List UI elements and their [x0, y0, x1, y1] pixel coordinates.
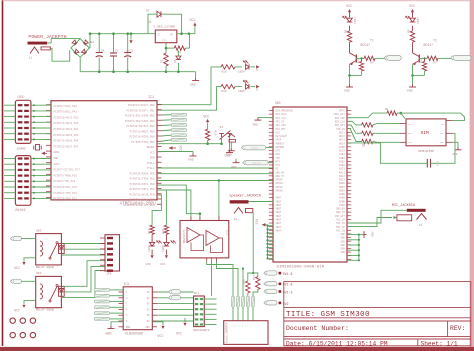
svg-text:GND: GND	[440, 141, 445, 144]
svg-text:VBAT: VBAT	[276, 219, 282, 222]
net flag SV1-3	[266, 289, 277, 293]
svg-text:NETLIGHT: NETLIGHT	[276, 135, 288, 138]
wire regulator output	[177, 33, 195, 35]
wire op-amp out B	[217, 262, 239, 297]
svg-text:GND: GND	[340, 251, 345, 254]
svg-text:PCINT26/SDA_PC1: PCINT26/SDA_PC1	[54, 197, 78, 201]
svg-text:DBG_RX: DBG_RX	[336, 208, 345, 211]
svg-text:PCINT31/OC0TV_PB0: PCINT31/OC0TV_PB0	[128, 103, 155, 107]
svg-text:GND: GND	[190, 83, 196, 87]
svg-text:ASAD: ASAD	[339, 204, 345, 207]
svg-text:PCINT1/OC0/AIN1_PB3: PCINT1/OC0/AIN1_PB3	[125, 119, 155, 123]
ground (T2)	[412, 75, 414, 84]
svg-text:MIC_JACKRCA: MIC_JACKRCA	[392, 204, 416, 208]
svg-text:R11: R11	[420, 58, 423, 63]
svg-text:R14: R14	[243, 279, 246, 284]
svg-text:HDC1: HDC1	[339, 131, 345, 134]
ground (SIM)	[453, 141, 459, 143]
svg-text:Rjack_SPKRPTH: Rjack_SPKRPTH	[225, 322, 229, 343]
wire IC1 to LED5	[157, 87, 221, 111]
net flag K2	[171, 295, 181, 299]
svg-text:VRTC: VRTC	[339, 110, 345, 113]
svg-text:HDC4: HDC4	[339, 142, 345, 145]
frame top border	[3, 0, 472, 2]
svg-text:U$1: U$1	[275, 101, 281, 105]
svg-text:RTS: RTS	[276, 160, 281, 163]
svg-text:US5: US5	[18, 96, 24, 100]
connector JP5	[105, 235, 120, 271]
svg-text:VCC: VCC	[254, 219, 258, 225]
mic jack J4 angle	[417, 214, 427, 220]
svg-text:SIM_VDD: SIM_VDD	[335, 117, 346, 120]
svg-text:SV1-8: SV1-8	[283, 283, 293, 287]
power jack J1 body	[28, 42, 48, 45]
svg-text:VCC: VCC	[176, 332, 182, 336]
svg-text:SIM_IO: SIM_IO	[336, 128, 345, 131]
svg-text:JP5: JP5	[106, 272, 112, 275]
svg-text:PT/SCK/T0S0_PB7: PT/SCK/T0S0_PB7	[131, 140, 155, 144]
svg-text:PCINT14/MISO_PB6: PCINT14/MISO_PB6	[130, 135, 155, 139]
svg-text:VBAT: VBAT	[276, 197, 282, 200]
svg-text:R13: R13	[253, 275, 256, 280]
svg-text:PCINT24/RXD0_PD0: PCINT24/RXD0_PD0	[130, 171, 155, 175]
regulator U1 box	[155, 30, 177, 43]
wire net RXD (IC1-U1)	[157, 167, 273, 169]
wire base (T2)	[419, 57, 427, 59]
svg-text:GND: GND	[150, 157, 155, 160]
svg-text:KBC3: KBC3	[339, 179, 345, 182]
svg-text:LED4: LED4	[238, 70, 245, 73]
LED LED5	[235, 86, 242, 88]
svg-text:PCINT12/ADC4_PA4: PCINT12/ADC4_PA4	[54, 127, 79, 131]
svg-text:SIM_RST: SIM_RST	[335, 124, 346, 127]
svg-text:ASAD: ASAD	[339, 197, 345, 200]
svg-text:D7: D7	[146, 10, 150, 13]
wire emitter (T2)	[412, 64, 414, 75]
net flag K1	[171, 290, 181, 294]
svg-text:GND: GND	[340, 240, 345, 243]
op-amp A	[187, 228, 200, 243]
connector M10X2	[15, 156, 31, 206]
svg-text:PCINT26/INT0_PD2: PCINT26/INT0_PD2	[130, 182, 155, 186]
svg-text:LED3: LED3	[353, 18, 356, 25]
svg-text:U$3: U$3	[36, 228, 42, 232]
svg-text:VCC: VCC	[14, 266, 20, 270]
LED LED4	[235, 66, 242, 68]
svg-text:B1: B1	[91, 41, 95, 44]
svg-text:PCINT13/MOSI_PB5: PCINT13/MOSI_PB5	[130, 129, 155, 133]
supply VCC (IC3)	[152, 322, 163, 325]
svg-text:IC3: IC3	[123, 282, 129, 286]
svg-text:MAX4077A: MAX4077A	[183, 229, 186, 243]
capacitor C13	[426, 159, 428, 168]
LED (T1 collector)	[347, 18, 353, 22]
svg-text:BC547: BC547	[361, 43, 371, 47]
svg-text:A2B1: A2B1	[339, 153, 345, 156]
wire VBAT rail	[267, 225, 269, 258]
svg-text:DBG_RX: DBG_RX	[276, 171, 285, 174]
IC1 pin stubs	[46, 104, 51, 106]
svg-text:SPK2P: SPK2P	[276, 186, 284, 189]
svg-text:R11: R11	[357, 58, 360, 63]
net VCC branch on rail	[129, 40, 132, 43]
svg-text:VCC: VCC	[160, 262, 166, 266]
wire R5 to SIM	[373, 123, 400, 125]
svg-text:PWRKEY: PWRKEY	[276, 142, 285, 145]
svg-text:DTR: DTR	[276, 150, 281, 153]
power jack J1 pins	[30, 47, 39, 54]
svg-text:RESET: RESET	[147, 146, 155, 149]
svg-text:R15: R15	[214, 131, 217, 136]
diode (flyback, relay K1)	[59, 244, 65, 254]
supply VCC (LED5)	[256, 85, 259, 88]
svg-text:J4: J4	[419, 224, 423, 227]
wire spk col 3	[242, 269, 244, 297]
svg-text:PWRKEY: PWRKEY	[251, 147, 259, 150]
wire JP1 up	[211, 258, 213, 296]
wire to op-amp in A	[157, 185, 200, 220]
svg-text:XTAL2: XTAL2	[147, 162, 155, 165]
svg-text:VCC: VCC	[179, 146, 183, 152]
net flag (T2)	[453, 55, 471, 60]
svg-text:PCINT10/ADC2_PA2: PCINT10/ADC2_PA2	[54, 115, 79, 119]
svg-text:CTS: CTS	[276, 164, 281, 167]
svg-text:PCINT27/INT1_PD3: PCINT27/INT1_PD3	[130, 187, 155, 191]
svg-text:IC2: IC2	[226, 230, 229, 235]
resistor R14	[246, 281, 250, 293]
svg-text:Date: 6/15/2011 12:05:14 PM: Date: 6/15/2011 12:05:14 PM	[286, 340, 388, 347]
svg-text:PCINT29/OC1A_PD5: PCINT29/OC1A_PD5	[130, 198, 155, 202]
svg-text:GND: GND	[253, 124, 259, 127]
wire U1 GND rail	[358, 235, 360, 261]
wires M10X2 to IC1	[4, 158, 15, 160]
IC3 pin stubs	[119, 291, 124, 293]
svg-text:R19: R19	[222, 90, 227, 93]
svg-text:RELAY-2Q8Q: RELAY-2Q8Q	[36, 266, 54, 269]
svg-text:VBAT: VBAT	[276, 229, 282, 232]
wire speaker to U1	[249, 201, 274, 203]
svg-text:PCINT15/ADC7_PA7: PCINT15/ADC7_PA7	[54, 144, 79, 148]
svg-text:GND: GND	[54, 157, 59, 160]
svg-text:RELAY-2Q8Q: RELAY-2Q8Q	[36, 309, 54, 312]
SIM connector box	[406, 119, 446, 146]
wire speaker to R14R13	[252, 213, 254, 273]
LED (T2 collector)	[410, 18, 416, 22]
svg-text:AGND: AGND	[339, 200, 345, 203]
net flag SV2	[266, 301, 277, 305]
svg-text:T2: T2	[433, 39, 437, 43]
wire SIM_VDD	[347, 113, 387, 118]
svg-text:A2B2: A2B2	[339, 157, 345, 160]
svg-text:SIM3001000-040N-01R: SIM3001000-040N-01R	[277, 266, 325, 270]
resistor R5	[362, 123, 373, 127]
svg-text:ASB1: ASB1	[339, 160, 345, 163]
svg-text:CLA: CLA	[408, 123, 413, 126]
svg-text:VCC: VCC	[256, 85, 259, 90]
wires relay K1 to JP5	[64, 243, 105, 245]
svg-text:SPK2N: SPK2N	[276, 189, 284, 192]
svg-text:SIM: SIM	[421, 130, 430, 136]
svg-text:VBAT: VBAT	[276, 215, 282, 218]
svg-text:VCC: VCC	[146, 262, 152, 266]
IC2 pin stubs	[190, 217, 192, 221]
svg-text:PCINT30/CLK0T/_PB1: PCINT30/CLK0T/_PB1	[126, 108, 154, 112]
svg-text:SV1-6: SV1-6	[283, 272, 293, 276]
svg-text:PCINT5/TMS0_PC5: PCINT5/TMS0_PC5	[54, 173, 78, 177]
svg-text:VBAT: VBAT	[276, 226, 282, 229]
ground (regulator)	[195, 72, 197, 78]
LED LED9	[164, 242, 169, 246]
resistor pull (T1)	[361, 58, 363, 61]
capacitor C1	[113, 34, 115, 53]
svg-text:VCC: VCC	[158, 334, 164, 338]
svg-text:VCC: VCC	[190, 19, 196, 23]
frame left border	[2, 0, 4, 346]
svg-text:C1: C1	[115, 50, 119, 53]
svg-text:SPI_CS: SPI_CS	[276, 120, 285, 123]
svg-text:GND: GND	[340, 237, 345, 240]
ground (S1)	[229, 137, 231, 150]
svg-text:PCINT29/TD1_PC3: PCINT29/TD1_PC3	[54, 185, 78, 189]
net flag PWRKEY	[244, 145, 266, 150]
resistor (T2)	[410, 31, 414, 42]
supply VCC (LED9)	[165, 255, 168, 258]
svg-text:J1: J1	[29, 57, 33, 60]
speaker jack pads	[231, 296, 234, 307]
resistor R8 (SIM_VDD)	[387, 111, 397, 115]
svg-text:SPI_RST: SPI_RST	[276, 128, 287, 131]
wire to op-amp in B	[157, 190, 191, 221]
svg-text:VBAT: VBAT	[276, 200, 282, 203]
wire op-amp pin C	[218, 181, 220, 221]
svg-text:CC+: CC+	[145, 326, 150, 329]
resistor R7b	[362, 139, 373, 143]
diode D7	[157, 11, 161, 17]
net flag (relay K2)	[13, 279, 22, 283]
op-amp B	[206, 231, 219, 246]
wire R7b to SIM	[373, 141, 400, 144]
U1 pin stubs	[269, 110, 273, 112]
svg-text:VCC: VCC	[256, 66, 259, 71]
supply VCC (regulator out)	[194, 26, 196, 34]
svg-text:SPK1N: SPK1N	[276, 182, 284, 185]
resistor R6	[362, 131, 373, 135]
svg-text:AVCC: AVCC	[54, 163, 61, 166]
mounting holes	[10, 318, 15, 323]
svg-text:PCINT0/BT1/AIN0_PB2: PCINT0/BT1/AIN0_PB2	[125, 114, 155, 118]
capacitor C4	[98, 34, 100, 53]
U1 box	[273, 107, 347, 262]
mic jack J4 body	[407, 209, 426, 212]
svg-text:GND: GND	[371, 232, 374, 237]
svg-text:VCC: VCC	[203, 115, 209, 119]
svg-text:PCINT27/TMS_PC2: PCINT27/TMS_PC2	[54, 191, 78, 195]
svg-text:KBC0: KBC0	[339, 168, 345, 171]
wire op-amp out A	[207, 262, 233, 297]
svg-text:AREF: AREF	[54, 151, 61, 154]
wire SIM_RST	[347, 125, 362, 133]
svg-text:SV1-3: SV1-3	[283, 290, 293, 294]
svg-text:C13: C13	[436, 161, 439, 166]
svg-text:R8: R8	[385, 108, 389, 111]
svg-text:VCC: VCC	[409, 5, 415, 9]
svg-text:D5: D5	[174, 59, 177, 63]
svg-text:GND: GND	[407, 89, 413, 93]
wire net PD (IC1-U1)	[157, 180, 273, 182]
svg-text:VBAT: VBAT	[276, 204, 282, 207]
title block frame	[284, 282, 471, 346]
svg-text:GND: GND	[340, 233, 345, 236]
svg-text:RST: RST	[408, 132, 413, 135]
svg-text:KBC2: KBC2	[339, 175, 345, 178]
svg-text:PCINT13/ADC5_PA5: PCINT13/ADC5_PA5	[54, 133, 79, 137]
svg-text:HDC3: HDC3	[339, 139, 345, 142]
resistor pull (T2)	[424, 58, 426, 61]
svg-text:Sheet: 1/1: Sheet: 1/1	[421, 340, 458, 347]
ground (pill2)	[235, 160, 237, 163]
capacitor C2	[127, 34, 129, 53]
ground (U1 SPI)	[258, 117, 273, 119]
wire reset net	[157, 143, 222, 145]
svg-text:RXD: RXD	[276, 153, 281, 156]
svg-text:PCINT10/SS/OC0_PB4: PCINT10/SS/OC0_PB4	[126, 124, 154, 128]
connector US5	[15, 100, 31, 143]
svg-text:LED9: LED9	[162, 245, 165, 252]
svg-text:TXD: TXD	[276, 157, 281, 160]
svg-text:'* * * * *': '* * * * *'	[232, 326, 248, 329]
svg-text:LED5: LED5	[238, 90, 245, 93]
frame bottom bar	[0, 347, 474, 351]
svg-text:SPI_DATA: SPI_DATA	[276, 113, 288, 116]
supply VCC (LED8)	[151, 255, 154, 258]
wire IC1 to LED4	[157, 67, 221, 105]
wire to net flag (T1)	[375, 57, 387, 59]
frame right border	[470, 0, 474, 347]
IC2 box	[180, 221, 229, 258]
wire SIM_VDD loop	[397, 113, 465, 120]
svg-text:JP1: JP1	[194, 292, 200, 295]
IC3 box	[123, 287, 152, 330]
ground (U1)	[359, 234, 365, 236]
resistor R1	[174, 46, 185, 50]
svg-text:TITLE: GSM SIM300: TITLE: GSM SIM300	[286, 311, 370, 319]
relay K2 body	[36, 276, 62, 307]
diode D5	[177, 51, 179, 57]
svg-text:KBR2: KBR2	[339, 189, 345, 192]
speaker jack pin box	[245, 209, 252, 213]
svg-text:R17: R17	[148, 229, 151, 234]
svg-text:HDC2: HDC2	[339, 135, 345, 138]
svg-text:POWER_JACKPTH: POWER_JACKPTH	[28, 34, 66, 40]
relay K1 body	[36, 234, 62, 265]
svg-text:M10X2: M10X2	[16, 209, 26, 213]
svg-text:GND: GND	[340, 248, 345, 251]
svg-text:U$3: U$3	[36, 271, 42, 275]
svg-text:SIMLOCK6P: SIMLOCK6P	[418, 150, 434, 153]
svg-text:VCC: VCC	[346, 5, 352, 9]
svg-text:PCINT25/TXD0_PD1: PCINT25/TXD0_PD1	[130, 177, 155, 181]
wire SIM_IO	[347, 129, 362, 142]
wires relay K2 to JP5	[64, 261, 105, 287]
connector JP1	[194, 296, 205, 327]
svg-text:DCD: DCD	[276, 131, 281, 134]
resistor R16	[164, 225, 168, 234]
wire MIC_1P	[347, 210, 407, 223]
svg-text:PCINT28/OC1B_PD4: PCINT28/OC1B_PD4	[130, 192, 155, 196]
wire SIM_CLA	[347, 121, 362, 125]
svg-text:DBG_TX: DBG_TX	[336, 211, 345, 214]
wire base (T1)	[356, 57, 364, 59]
supply VCC (relay K1)	[24, 258, 36, 261]
wire to net flag (T2)	[438, 57, 453, 59]
svg-text:Document Number:: Document Number:	[286, 325, 349, 332]
svg-text:R18: R18	[222, 70, 227, 73]
svg-text:SV2: SV2	[283, 302, 289, 306]
svg-text:T1: T1	[370, 39, 374, 43]
wire jack pin1 to bridge	[47, 42, 51, 44]
svg-text:GND: GND	[226, 153, 232, 156]
svg-text:VBAT: VBAT	[276, 211, 282, 214]
ground (T1)	[349, 75, 351, 84]
svg-text:VCC: VCC	[127, 50, 131, 56]
svg-text:DBG_TX: DBG_TX	[276, 175, 285, 178]
svg-text:S1: S1	[220, 126, 224, 129]
supply VCC (JP1)	[184, 318, 186, 322]
svg-text:BUZZER: BUZZER	[276, 146, 285, 149]
diode D7 loop wires	[148, 14, 154, 34]
resistor R18	[221, 65, 235, 69]
SIM pin stubs	[400, 122, 407, 124]
svg-text:C4: C4	[101, 50, 105, 53]
svg-text:KBR1: KBR1	[339, 186, 345, 189]
wire jack pin2 to bridge	[50, 48, 69, 61]
svg-text:AGND: AGND	[339, 193, 345, 196]
wire SIM cap loop	[380, 143, 425, 164]
LED LED8	[149, 242, 154, 246]
svg-text:SIM_PRESENCE: SIM_PRESENCE	[276, 110, 294, 113]
svg-text:MIC_1N: MIC_1N	[336, 222, 345, 225]
svg-text:VBAT: VBAT	[276, 208, 282, 211]
svg-text:ASB2: ASB2	[339, 164, 345, 167]
svg-text:GND: GND	[188, 158, 194, 162]
svg-text:R5: R5	[362, 145, 366, 148]
svg-text:R2: R2	[161, 59, 164, 63]
wire to chain R17	[152, 195, 161, 225]
wire net TXD (IC1-U1)	[157, 173, 273, 175]
svg-text:VSEL_EXT: VSEL_EXT	[333, 113, 345, 116]
wire U1 to cap loop	[347, 142, 380, 144]
speaker jack box (Rjack_SPKRPTH)	[224, 321, 268, 345]
svg-text:PCINT2/TCK_PC4: PCINT2/TCK_PC4	[54, 179, 76, 183]
svg-text:IC1: IC1	[148, 96, 154, 100]
svg-text:PCINT30/OC2B/ICP_PD6: PCINT30/OC2B/ICP_PD6	[123, 203, 155, 207]
svg-text:VPCR: VPCR	[276, 139, 282, 142]
wire bridge right vertex up	[89, 34, 91, 48]
svg-text:V_REG_1175MK: V_REG_1175MK	[154, 25, 176, 28]
speaker jack J3 pins	[234, 208, 243, 214]
svg-text:GSM_ON: GSM_ON	[253, 162, 261, 165]
net flag (T1)	[387, 55, 402, 60]
resistor R19	[221, 84, 235, 88]
svg-text:MIC_1P: MIC_1P	[336, 219, 345, 222]
svg-text:REV:: REV:	[450, 325, 465, 332]
svg-text:speaker_JACKRCA: speaker_JACKRCA	[229, 193, 261, 198]
wire jack drop to resistors	[248, 273, 253, 281]
svg-text:VPP: VPP	[440, 132, 445, 135]
resistor (T1)	[347, 31, 351, 42]
net flag SV1-6	[266, 271, 277, 275]
ground (S2)	[230, 148, 232, 151]
